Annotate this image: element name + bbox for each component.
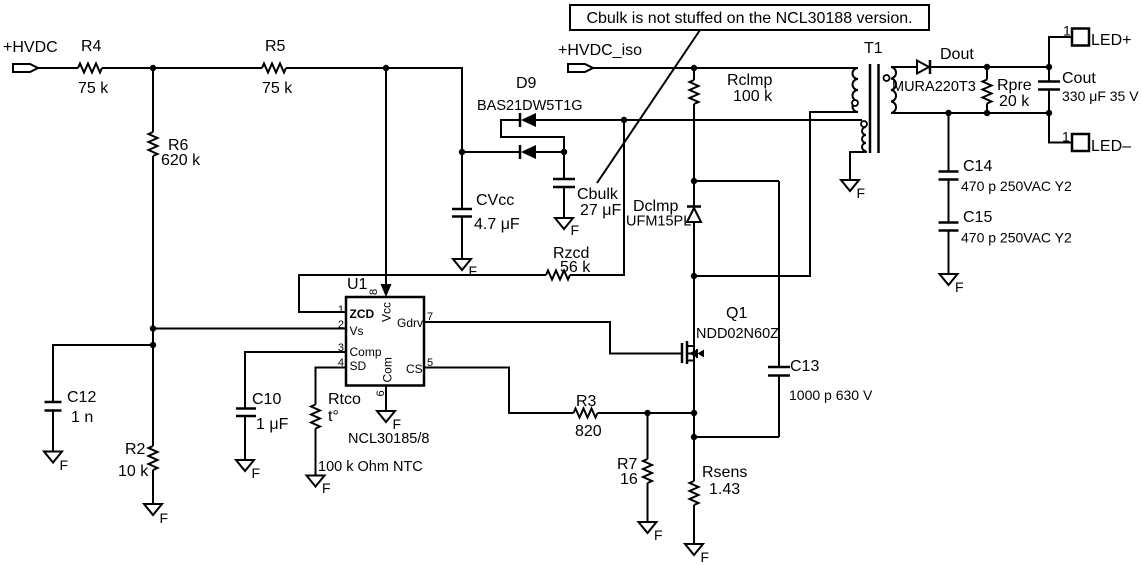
wire Cbulk column xyxy=(563,152,565,179)
svg-text:CVcc: CVcc xyxy=(476,192,514,209)
svg-text:75 k: 75 k xyxy=(262,80,293,97)
svg-text:470 p 250VAC Y2: 470 p 250VAC Y2 xyxy=(961,178,1072,194)
wire R4 to R5 xyxy=(102,67,262,69)
wire to C12 xyxy=(53,345,153,402)
capacitor C12 xyxy=(45,389,97,426)
svg-text:NCL30185/8: NCL30185/8 xyxy=(348,431,429,447)
svg-text:20 k: 20 k xyxy=(999,93,1030,110)
wire ZCD to Rzcd xyxy=(299,275,546,312)
wire C13 bottom xyxy=(694,436,779,438)
svg-text:F: F xyxy=(322,480,331,496)
U1 pin 6 Com xyxy=(375,357,395,396)
svg-text:R3: R3 xyxy=(576,393,597,410)
svg-text:F: F xyxy=(160,510,169,526)
svg-text:C15: C15 xyxy=(963,209,992,226)
svg-text:Dout: Dout xyxy=(940,46,974,63)
wire R6 column xyxy=(152,68,154,446)
node junction Vcc startup branch xyxy=(383,65,389,71)
svg-text:F: F xyxy=(955,279,964,295)
svg-text:4.7 μF: 4.7 μF xyxy=(474,216,520,233)
svg-text:1.43: 1.43 xyxy=(709,481,740,498)
wire D9 lower anode xyxy=(536,151,564,153)
node junction Rsens top xyxy=(691,434,697,440)
svg-text:100 k Ohm NTC: 100 k Ohm NTC xyxy=(318,459,423,475)
wire R3 to sense node xyxy=(598,412,695,414)
resistor R5 xyxy=(262,38,293,97)
wire C10 to ground xyxy=(244,416,246,460)
resistor R2 xyxy=(118,441,158,480)
wire secondary bottom rail xyxy=(891,112,1049,114)
wire SD to Rtco xyxy=(316,368,347,405)
capacitor Cbulk xyxy=(553,179,621,219)
svg-text:1: 1 xyxy=(1062,129,1070,145)
wire +HVDC_iso rail xyxy=(593,67,858,69)
svg-text:LED–: LED– xyxy=(1091,138,1131,155)
svg-text:LED+: LED+ xyxy=(1091,32,1131,49)
svg-text:BAS21DW5T1G: BAS21DW5T1G xyxy=(477,98,583,114)
svg-text:330 μF 35 V: 330 μF 35 V xyxy=(1062,88,1139,104)
svg-text:Q1: Q1 xyxy=(726,305,747,322)
capacitor C15 xyxy=(939,180,1073,275)
transformer T1 primary winding xyxy=(852,68,858,112)
svg-text:NDD02N60Z: NDD02N60Z xyxy=(696,326,779,342)
svg-text:C13: C13 xyxy=(790,358,819,375)
svg-text:F: F xyxy=(469,263,478,279)
node junction CVcc xyxy=(459,149,465,155)
svg-text:470 p 250VAC Y2: 470 p 250VAC Y2 xyxy=(961,230,1072,246)
node junction R4/R5/R6 xyxy=(150,65,156,71)
wire +HVDC to R4 xyxy=(38,67,78,69)
U1 pin 7 Gdrv xyxy=(397,311,433,330)
U1 pin 4 SD xyxy=(338,357,367,373)
ground R7 xyxy=(639,522,663,543)
svg-text:Rsens: Rsens xyxy=(702,464,747,481)
wire CS to R3 xyxy=(424,368,574,414)
node junction Rclmp top xyxy=(691,65,697,71)
svg-text:R5: R5 xyxy=(265,38,286,55)
svg-text:F: F xyxy=(252,465,261,481)
svg-text:Gdrv: Gdrv xyxy=(397,316,423,330)
svg-text:Rclmp: Rclmp xyxy=(727,72,772,89)
svg-text:27 μF: 27 μF xyxy=(580,202,621,219)
ground CVcc xyxy=(453,259,477,279)
ground Cbulk xyxy=(555,218,579,238)
svg-text:+HVDC_iso: +HVDC_iso xyxy=(558,42,642,59)
transformer T1 aux winding xyxy=(850,121,867,180)
svg-text:F: F xyxy=(654,527,663,543)
ground C10 xyxy=(236,460,260,481)
diode Dclmp xyxy=(626,181,701,413)
svg-text:10 k: 10 k xyxy=(118,463,149,480)
svg-text:F: F xyxy=(393,416,402,432)
svg-text:1 n: 1 n xyxy=(71,409,93,426)
ground U1 xyxy=(377,411,401,432)
node junction Rzcd top xyxy=(621,117,627,123)
node junction Cbulk xyxy=(561,149,567,155)
node +HVDC_iso input terminal xyxy=(558,42,642,72)
svg-text:Rtco: Rtco xyxy=(328,391,361,408)
diode D9 upper xyxy=(520,113,536,127)
capacitor C13 xyxy=(768,181,873,437)
svg-text:Cbulk is not stuffed on the NC: Cbulk is not stuffed on the NCL30188 ver… xyxy=(586,10,912,27)
wire R2 to ground xyxy=(152,470,154,504)
svg-text:Vs: Vs xyxy=(350,324,364,338)
wire Rzcd to aux line xyxy=(570,120,624,275)
node junction Rpre bottom xyxy=(984,110,990,116)
wire startup to U1 pin 8 xyxy=(385,68,387,285)
resistor R3 xyxy=(574,393,602,440)
wire Cbulk to ground xyxy=(563,187,565,218)
ground Rsens xyxy=(685,544,709,565)
wire Gdrv to Q1 gate xyxy=(424,322,682,354)
resistor Rzcd xyxy=(546,245,591,280)
capacitor C10 xyxy=(236,391,289,433)
diode Dout xyxy=(892,46,976,95)
svg-text:T1: T1 xyxy=(864,40,883,57)
node LED+ terminal xyxy=(1049,23,1131,68)
ground T1 aux xyxy=(841,180,865,201)
ground Rtco xyxy=(307,476,331,497)
node junction R7 xyxy=(644,410,650,416)
node junction C12 branch xyxy=(150,342,156,348)
svg-text:C12: C12 xyxy=(67,389,96,406)
wire CVcc to ground xyxy=(461,217,463,260)
svg-text:SD: SD xyxy=(350,359,367,373)
U1 pin 2 Vs xyxy=(338,319,364,338)
capacitor C14 xyxy=(939,113,1073,194)
ground C15 xyxy=(940,274,964,295)
transformer T1 core xyxy=(864,40,883,153)
diode D9 labels xyxy=(477,75,583,114)
wire Vs to U1 pin 2 xyxy=(153,328,346,330)
U1 pin 1 ZCD xyxy=(338,304,375,321)
U1 pin 5 CS xyxy=(406,357,433,376)
resistor R4 xyxy=(78,38,109,97)
wire R5 to Vcc rail corner xyxy=(286,68,462,152)
resistor Rsens xyxy=(690,413,748,544)
node junction CS sense xyxy=(691,410,697,416)
ground C12 xyxy=(44,452,68,474)
svg-text:F: F xyxy=(857,185,866,201)
resistor Rpre xyxy=(983,67,1032,113)
svg-text:UFM15PL: UFM15PL xyxy=(626,214,691,230)
svg-text:1: 1 xyxy=(1063,23,1071,39)
transformer T1 secondary winding xyxy=(884,67,897,113)
wire C12 to ground xyxy=(52,411,54,452)
svg-text:CS: CS xyxy=(406,362,423,376)
node junction Vs xyxy=(150,325,156,331)
wire to C13 top xyxy=(694,180,779,182)
node junction C14 branch xyxy=(945,110,951,116)
svg-text:75 k: 75 k xyxy=(78,80,109,97)
node junction Cout top xyxy=(1046,64,1052,70)
svg-text:F: F xyxy=(60,457,69,473)
svg-text:R4: R4 xyxy=(81,38,102,55)
wire D9 lower cathode xyxy=(462,151,519,153)
node junction Cout bottom xyxy=(1046,110,1052,116)
wire Comp to C10 xyxy=(245,352,346,409)
svg-text:R2: R2 xyxy=(125,441,146,458)
node junction Rpre top xyxy=(984,64,990,70)
IC U1 box xyxy=(346,276,424,386)
svg-text:Vcc: Vcc xyxy=(380,302,394,322)
resistor R7 xyxy=(617,413,652,522)
wire CVcc column xyxy=(461,152,463,209)
svg-text:56 k: 56 k xyxy=(560,259,591,276)
svg-text:Cbulk: Cbulk xyxy=(577,186,619,203)
node +HVDC input terminal xyxy=(3,39,58,72)
svg-text:Comp: Comp xyxy=(350,345,382,359)
svg-text:ZCD: ZCD xyxy=(350,307,375,321)
wire Rtco to ground xyxy=(315,429,317,476)
svg-text:100 k: 100 k xyxy=(733,88,773,105)
svg-text:Rpre: Rpre xyxy=(997,77,1032,94)
svg-text:620 k: 620 k xyxy=(161,152,201,169)
svg-text:F: F xyxy=(571,222,580,238)
svg-text:8: 8 xyxy=(368,289,380,295)
svg-text:D9: D9 xyxy=(516,75,537,92)
wire D9 upper cathode jog xyxy=(501,120,564,152)
resistor Rclmp xyxy=(690,68,774,181)
capacitor Cout xyxy=(1038,67,1139,113)
wire primary return xyxy=(694,112,858,276)
svg-text:16: 16 xyxy=(620,471,638,488)
node junction Dclmp/C13 top xyxy=(691,178,697,184)
callout leader line xyxy=(597,30,700,183)
transistor Q1 xyxy=(682,305,779,364)
svg-text:U1: U1 xyxy=(347,276,368,293)
svg-text:MURA220T3: MURA220T3 xyxy=(892,79,976,95)
svg-text:1 μF: 1 μF xyxy=(256,416,289,433)
resistor R6 xyxy=(149,132,202,169)
svg-text:t°: t° xyxy=(328,408,339,425)
wire D9 upper anode to aux winding xyxy=(536,119,862,121)
node junction Q1 drain / primary return xyxy=(691,273,697,279)
capacitor CVcc xyxy=(452,192,520,233)
svg-text:Cout: Cout xyxy=(1062,70,1096,87)
svg-text:1: 1 xyxy=(338,304,344,316)
U1 pin 3 Comp xyxy=(338,342,382,359)
svg-text:F: F xyxy=(701,549,710,565)
node LED- terminal xyxy=(1049,113,1131,155)
svg-text:C10: C10 xyxy=(252,391,281,408)
U1 pin 8 Vcc arrow xyxy=(368,284,394,322)
resistor Rtco xyxy=(311,391,361,429)
wire Dout to output node xyxy=(930,66,1049,68)
ground R2 xyxy=(144,504,168,526)
wire pin 6 to ground xyxy=(385,386,387,412)
svg-text:C14: C14 xyxy=(963,158,992,175)
callout note box xyxy=(570,5,929,30)
svg-text:+HVDC: +HVDC xyxy=(3,39,58,56)
wire secondary top to Dout xyxy=(891,66,917,68)
svg-text:Com: Com xyxy=(381,357,395,382)
svg-text:2: 2 xyxy=(338,319,344,331)
svg-text:820: 820 xyxy=(575,423,602,440)
svg-text:1000 p 630 V: 1000 p 630 V xyxy=(789,387,873,403)
diode D9 lower xyxy=(520,145,536,159)
svg-text:Dclmp: Dclmp xyxy=(633,198,678,215)
